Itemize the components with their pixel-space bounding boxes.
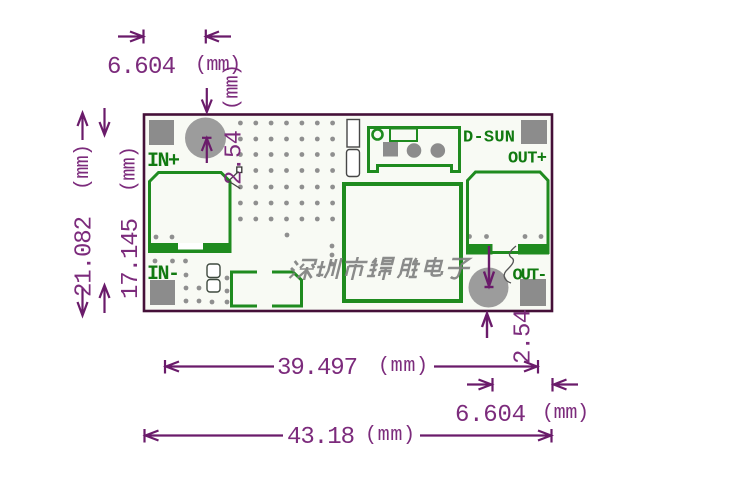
- dimension 39.497 bottom: line and arrows: [165, 360, 538, 374]
- svg-text:OUT+: OUT+: [508, 150, 547, 169]
- resistor outline R1 (small, top near IC): [347, 120, 360, 148]
- IC U1 pad circle 2: [431, 143, 446, 158]
- inductor L1 (big square): [344, 184, 461, 301]
- dimension 6.604 top: arrows: [118, 30, 231, 44]
- dimension 43.18 bottom: line and arrows: [145, 429, 552, 443]
- capacitor C2 polarity bar: [466, 244, 493, 255]
- svg-text:43.18: 43.18: [287, 424, 354, 451]
- pad bottom-left: [150, 280, 175, 305]
- svg-text:(mm): (mm): [542, 402, 589, 425]
- svg-text:2.54: 2.54: [222, 130, 249, 185]
- IC U1 pad circle 1: [407, 143, 422, 158]
- svg-text:(mm): (mm): [119, 146, 142, 192]
- pad top-right: [521, 120, 547, 144]
- svg-text:IN+: IN+: [147, 150, 180, 173]
- mounting hole bottom-right: [469, 268, 509, 308]
- via dot grid: [153, 121, 544, 305]
- IC U1 label box: [390, 129, 417, 142]
- pad top-left: [149, 120, 174, 145]
- dimension 21.082 left: arrows: [78, 113, 88, 316]
- IC U1 outline (LM2596 with feet): [369, 128, 460, 172]
- capacitor C1 polarity bar: [148, 243, 231, 253]
- svg-text:(mm): (mm): [222, 64, 245, 110]
- svg-text:17.145: 17.145: [118, 219, 145, 299]
- svg-text:D-SUN: D-SUN: [463, 129, 515, 148]
- svg-text:21.082: 21.082: [72, 217, 99, 297]
- svg-text:6.604: 6.604: [107, 54, 176, 81]
- svg-text:(mm): (mm): [72, 144, 95, 190]
- svg-text:39.497: 39.497: [277, 355, 357, 382]
- svg-text:(mm): (mm): [365, 424, 415, 447]
- capacitor C1 (input, left): [150, 173, 231, 252]
- dimension 2.54 bottom-right vertical: arrows: [482, 246, 494, 338]
- pad bottom-right: [520, 279, 546, 306]
- diode D1 outline (bottom rect, two brackets): [232, 272, 258, 306]
- mounting hole top-left: [185, 118, 226, 159]
- dimension 17.145: arrows: [100, 108, 110, 313]
- IC U1 pin1 ring: [373, 130, 383, 140]
- resistor outline R2: [347, 150, 360, 177]
- IC U1 pad square: [383, 142, 398, 157]
- via square marker: [237, 167, 242, 173]
- svg-text:(mm): (mm): [378, 355, 428, 378]
- silkscreen zigzag near C1: [229, 172, 241, 189]
- svg-text:IN-: IN-: [147, 263, 180, 286]
- component outline pair (bottom-left small): [207, 264, 220, 278]
- capacitor C2 (output, right): [468, 172, 549, 253]
- dimension 2.54 top vertical: arrows: [202, 88, 212, 163]
- svg-text:2.54: 2.54: [511, 309, 538, 364]
- svg-text:6.604: 6.604: [455, 402, 526, 429]
- silkscreen squiggle near OUT-: [504, 246, 516, 283]
- watermark (stylized CJK strokes): [288, 260, 316, 280]
- dimension 6.604 bottom-right: arrows: [467, 378, 578, 392]
- svg-text:OUT-: OUT-: [513, 267, 548, 286]
- pcb board outline: [144, 115, 552, 312]
